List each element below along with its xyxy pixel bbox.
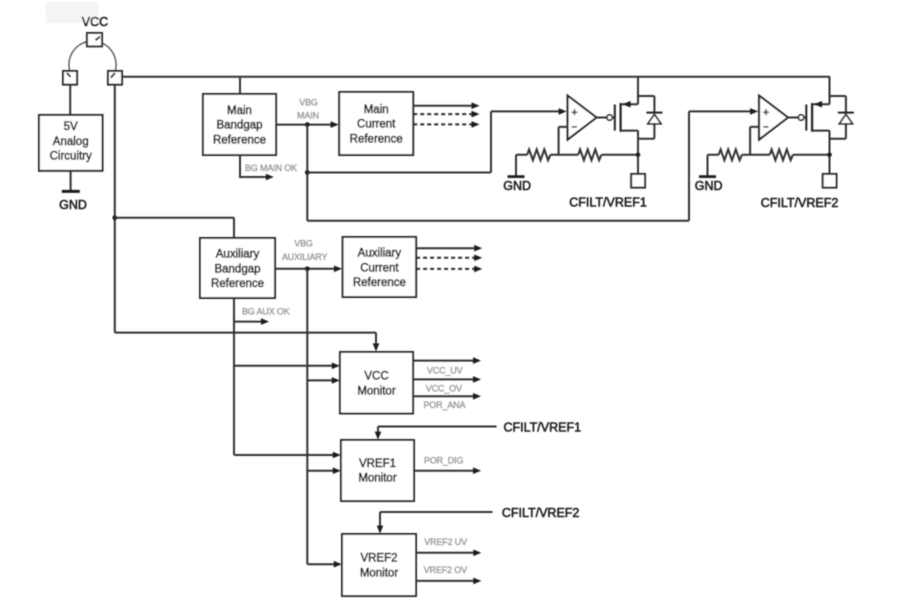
bubble U1 output	[607, 115, 612, 120]
op-amp U2	[759, 96, 788, 140]
block VREF1 monitor	[341, 440, 414, 501]
wire feedback node segments 2	[708, 154, 830, 156]
junction VBG feed	[305, 170, 310, 175]
svg-text:Main: Main	[364, 104, 389, 116]
svg-text:VREF2: VREF2	[360, 553, 397, 565]
diode D2 body	[830, 96, 854, 139]
svg-text:BG AUX OK: BG AUX OK	[242, 307, 290, 317]
net label VBG MAIN	[297, 97, 319, 120]
pin square CFILT/VREF1	[631, 174, 645, 188]
svg-text:Monitor: Monitor	[360, 567, 399, 579]
svg-text:Circuitry: Circuitry	[50, 151, 92, 163]
block VCC monitor	[340, 352, 413, 414]
svg-text:VCC_UV: VCC_UV	[427, 366, 463, 376]
svg-text:GND: GND	[59, 198, 87, 212]
block auxiliary current reference	[343, 237, 417, 297]
pin square VCC right	[108, 71, 122, 85]
svg-text:MAIN: MAIN	[297, 111, 319, 121]
svg-text:Monitor: Monitor	[358, 473, 397, 485]
svg-text:Reference: Reference	[350, 133, 403, 145]
wire VCC to VCC monitor top	[115, 333, 380, 352]
wire aux current output solid	[416, 245, 482, 252]
wire rail to MOSFET Q1 source	[637, 77, 639, 104]
wire VCC arc	[69, 41, 116, 72]
svg-text:VREF2 OV: VREF2 OV	[424, 565, 467, 575]
wire to op-amp U2 positive input	[307, 108, 758, 221]
wire main current output solid	[413, 102, 479, 109]
block main bandgap reference	[203, 94, 276, 155]
transistor Q1 PMOS	[612, 101, 638, 132]
wire 5V box to ground	[70, 171, 72, 191]
wire VCC rail top	[122, 76, 830, 78]
wire to VCC monitor input 2	[307, 377, 340, 384]
wire U1 output to gate bubble	[596, 117, 607, 119]
svg-text:VREF2 UV: VREF2 UV	[424, 537, 467, 547]
svg-text:Auxiliary: Auxiliary	[216, 249, 260, 261]
svg-text:Main: Main	[227, 105, 252, 117]
svg-text:Bandgap: Bandgap	[214, 263, 260, 275]
pin square VCC top	[87, 33, 102, 46]
wire CFILT/VREF1 feed to VREF1 monitor	[375, 427, 497, 440]
wire VCC to auxiliary bandgap top	[115, 218, 234, 238]
pin square VCC left	[63, 71, 77, 85]
wire VCC vertical trunk	[114, 85, 116, 333]
block auxiliary bandgap reference	[200, 238, 275, 298]
svg-text:POR_ANA: POR_ANA	[423, 400, 465, 410]
wire rail to MOSFET Q2 source	[829, 77, 831, 104]
block 5V Analog Circuitry	[39, 115, 103, 171]
wire aux current output dashed 2	[416, 266, 482, 273]
svg-text:Reference: Reference	[211, 278, 264, 290]
bubble U2 output	[798, 115, 803, 120]
resistor R4	[770, 149, 793, 160]
wire output POR_ANA	[413, 393, 481, 400]
ground GND (U2 divider)	[695, 155, 723, 193]
ground GND (U1 divider)	[503, 155, 531, 193]
junction VBG AUXILIARY	[305, 266, 310, 271]
svg-text:POR_DIG: POR_DIG	[424, 455, 464, 465]
wire to VREF1 monitor input 1	[234, 452, 341, 459]
svg-text:Auxiliary: Auxiliary	[358, 248, 402, 260]
junction CFILT/VREF1 node	[636, 153, 641, 158]
wire main current output dashed 1	[413, 111, 479, 118]
wire output VREF2 OV	[416, 578, 481, 585]
svg-text:VBG: VBG	[294, 239, 313, 249]
svg-text:CFILT/VREF1: CFILT/VREF1	[569, 196, 647, 210]
wire to VREF1 monitor input 2	[307, 467, 341, 474]
svg-text:VBG: VBG	[299, 97, 318, 107]
wire to VCC monitor input 1	[234, 363, 340, 370]
block main current reference	[339, 92, 413, 155]
resistor R2	[578, 149, 601, 160]
block VREF2 monitor	[342, 534, 416, 596]
svg-text:Analog: Analog	[53, 136, 89, 148]
wire rail to main bandgap	[239, 77, 241, 94]
svg-text:VCC: VCC	[82, 15, 108, 29]
svg-text:Monitor: Monitor	[357, 385, 396, 397]
wire U2 output to gate bubble	[788, 117, 799, 119]
resistor R1	[527, 149, 550, 160]
svg-text:Reference: Reference	[213, 134, 266, 146]
svg-text:Current: Current	[360, 262, 399, 274]
wire BG MAIN OK arrow	[240, 155, 274, 180]
wire BG AUX OK arrow	[234, 318, 269, 325]
svg-text:GND: GND	[695, 179, 723, 193]
wire output VREF2 UV	[416, 550, 481, 557]
wire VBG AUXILIARY to aux current reference	[275, 266, 342, 273]
wire Q2 drain down	[829, 131, 831, 174]
transistor Q2 PMOS	[804, 101, 830, 132]
wire output VCC_UV	[413, 357, 481, 364]
svg-text:AUXILIARY: AUXILIARY	[282, 252, 328, 262]
wire aux current output dashed 1	[416, 255, 482, 262]
resistor R3	[719, 149, 742, 160]
pin square CFILT/VREF2	[823, 174, 837, 188]
diode D1 body	[638, 96, 662, 139]
wire VBG MAIN junction down	[306, 125, 308, 173]
wire feedback node segments	[516, 154, 638, 156]
wire left pin to 5V box	[69, 85, 71, 115]
svg-text:CFILT/VREF1: CFILT/VREF1	[504, 421, 582, 435]
svg-text:Bandgap: Bandgap	[216, 120, 262, 132]
svg-text:GND: GND	[503, 179, 531, 193]
wire VBG MAIN to main current reference	[276, 121, 339, 128]
svg-text:Reference: Reference	[353, 277, 406, 289]
junction VCC branch	[112, 215, 117, 220]
ground GND (5V circuitry)	[59, 191, 87, 211]
wire VBG AUXILIARY vertical trunk	[306, 269, 308, 564]
net label VBG AUXILIARY	[282, 239, 328, 262]
junction VBG MAIN	[305, 122, 310, 127]
svg-text:VCC: VCC	[364, 371, 388, 383]
wire output VCC_OV	[413, 376, 481, 383]
svg-text:5V: 5V	[64, 121, 78, 133]
svg-text:Current: Current	[357, 119, 396, 131]
svg-text:VREF1: VREF1	[359, 458, 396, 470]
svg-text:BG MAIN OK: BG MAIN OK	[245, 163, 297, 173]
wire CFILT/VREF2 feed to VREF2 monitor	[377, 512, 493, 534]
wire U2 inverting feedback	[750, 127, 759, 155]
wire output POR_DIG	[414, 467, 481, 474]
wire to op-amp U1 positive input	[307, 108, 566, 172]
wire to VREF2 monitor input	[307, 561, 342, 568]
svg-text:CFILT/VREF2: CFILT/VREF2	[761, 196, 839, 210]
op-amp U1	[568, 96, 597, 140]
wire BG AUX OK vertical trunk	[233, 298, 235, 455]
wire Q1 drain down	[637, 131, 639, 174]
wire main current output dashed 2	[413, 121, 479, 128]
svg-text:CFILT/VREF2: CFILT/VREF2	[502, 506, 580, 520]
wire U1 inverting feedback	[559, 127, 568, 155]
svg-text:VCC_OV: VCC_OV	[426, 383, 462, 393]
junction CFILT/VREF2 node	[827, 153, 832, 158]
